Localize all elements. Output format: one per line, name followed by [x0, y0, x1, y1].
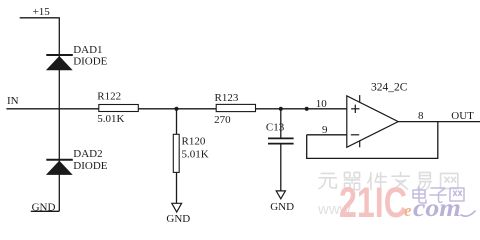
- svg-text:270: 270: [214, 114, 231, 126]
- svg-text:GND: GND: [166, 213, 190, 225]
- junction node C (pin 10 / feedback): [305, 107, 309, 111]
- diode DAD2: [46, 148, 108, 175]
- ground GND (below C13): [270, 191, 294, 213]
- svg-text:C13: C13: [266, 121, 285, 133]
- wire R122 to R123: [138, 108, 216, 110]
- wire C13 bottom to ground: [280, 144, 282, 191]
- svg-text:DAD2: DAD2: [73, 148, 102, 160]
- svg-text:DAD1: DAD1: [73, 44, 102, 56]
- junction node B (C13 tap): [279, 107, 283, 111]
- pin 9 label: [322, 124, 328, 136]
- wire R120 bottom to ground: [176, 172, 178, 203]
- svg-text:OUT: OUT: [451, 110, 474, 122]
- wire output pin 8 to OUT: [398, 121, 480, 123]
- pin 10 label: [316, 98, 328, 110]
- svg-text:9: 9: [322, 124, 328, 136]
- svg-text:R123: R123: [215, 92, 239, 104]
- node OUT label: [451, 110, 474, 122]
- watermark logo 21IC.com: [317, 172, 475, 227]
- svg-text:R120: R120: [182, 136, 206, 148]
- svg-text:R122: R122: [97, 91, 121, 103]
- wire R120 top: [176, 109, 178, 135]
- wire R123 to op-amp pin 10: [256, 108, 347, 110]
- power port +15: [20, 17, 60, 19]
- svg-text:324_2C: 324_2C: [371, 82, 408, 94]
- svg-text:21IC: 21IC: [339, 179, 407, 227]
- wire IN horizontal: [6, 108, 98, 110]
- wire C13 top: [280, 109, 282, 138]
- wire +15 rail down to GND: [58, 18, 60, 212]
- ground GND (below R120): [166, 203, 190, 225]
- ground power port GND (left rail): [31, 201, 60, 213]
- junction node A (R122/R120): [174, 107, 178, 111]
- wire feedback loop: [307, 122, 438, 159]
- node IN label: [7, 95, 19, 107]
- resistor R120: [173, 134, 208, 172]
- svg-text:5.01K: 5.01K: [97, 113, 124, 125]
- svg-text:IN: IN: [7, 95, 19, 107]
- resistor R123: [214, 92, 255, 126]
- svg-text:com: com: [413, 195, 461, 222]
- resistor R122: [97, 91, 138, 126]
- node +15 label: [33, 6, 51, 18]
- svg-text:GND: GND: [270, 201, 294, 213]
- svg-text:8: 8: [418, 110, 424, 122]
- svg-text:10: 10: [316, 98, 328, 110]
- svg-text:DIODE: DIODE: [73, 56, 107, 68]
- svg-text:GND: GND: [32, 201, 56, 213]
- pin 8 label: [418, 110, 424, 122]
- svg-text:+15: +15: [33, 6, 51, 18]
- diode DAD1: [46, 44, 108, 70]
- svg-text:5.01K: 5.01K: [182, 149, 209, 161]
- wire op-amp pin 9: [307, 134, 347, 136]
- svg-text:DIODE: DIODE: [73, 160, 107, 172]
- svg-text:e: e: [404, 201, 412, 220]
- capacitor C13: [266, 121, 294, 143]
- op-amp U1 324_2C: [347, 82, 408, 148]
